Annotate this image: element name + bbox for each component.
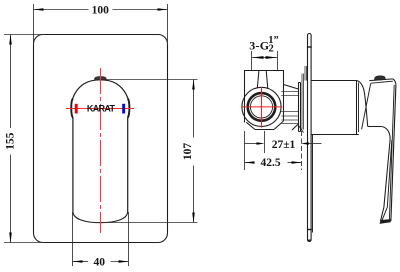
dim 42.5 extension line left xyxy=(244,131,246,170)
dim 100 extension lines xyxy=(33,4,35,45)
dim 42.5 extension line right xyxy=(301,131,303,170)
dim 3-G1/2 arrows xyxy=(252,56,264,59)
dim 100 arrows xyxy=(34,8,44,11)
step lines near plate top xyxy=(305,66,307,81)
handle body (front view) xyxy=(71,80,130,223)
handle knob chamfer line xyxy=(371,81,393,83)
dim 42.5 arrows xyxy=(245,161,255,164)
handle left side bump xyxy=(71,99,73,118)
handle neck curve xyxy=(357,81,368,127)
body-to-flange top slant xyxy=(284,85,299,90)
trim line below sleeve xyxy=(312,135,314,233)
escutcheon plate edge-on xyxy=(308,34,312,242)
plate tick top xyxy=(307,46,312,48)
top port neck left line xyxy=(257,71,259,89)
svg-text:”: ” xyxy=(274,35,279,46)
plate bottom dark cap xyxy=(308,240,311,242)
dim 40 line xyxy=(73,261,89,263)
dim 40 arrows xyxy=(73,260,83,263)
svg-text:42.5: 42.5 xyxy=(261,157,281,169)
lever blade inner edge B xyxy=(381,140,391,222)
lever blade inner edge A xyxy=(380,140,390,222)
hot indicator (red tick) xyxy=(75,104,78,114)
dim 3-G1/2 line xyxy=(252,57,278,59)
dim 107 extension lines xyxy=(106,79,197,81)
dim 107 arrows xyxy=(192,80,195,90)
lever tip dark wedge xyxy=(380,219,392,224)
port inner circle xyxy=(250,96,272,118)
port outer circle xyxy=(242,87,281,126)
mounting flange xyxy=(299,83,301,132)
dim 3-G1/2 extension lines xyxy=(251,51,253,71)
svg-text:155: 155 xyxy=(5,132,17,150)
sleeve inner edge line xyxy=(358,83,360,133)
body-to-flange bottom slant xyxy=(292,124,298,130)
handle right side bump xyxy=(128,99,130,118)
dim 155 line xyxy=(10,35,12,129)
port thread ring (thick) xyxy=(248,93,276,121)
dim 3-G1/2 text xyxy=(249,35,278,55)
trim sleeve cylinder xyxy=(311,81,359,135)
dim 40 extension lines xyxy=(72,212,74,266)
flange second band xyxy=(302,74,304,130)
lever blade outer inner line xyxy=(389,85,394,220)
handle button cap (side) xyxy=(375,76,386,80)
red crosshair of port xyxy=(242,87,282,128)
handle top cap (front) xyxy=(95,77,106,80)
plate tick bottom xyxy=(307,229,312,231)
dim 155 arrows xyxy=(9,35,12,45)
body bottom right chamfer xyxy=(274,121,284,130)
lever elbow arc xyxy=(382,127,390,140)
svg-text:27±1: 27±1 xyxy=(272,139,296,151)
dim 27 right tail xyxy=(308,143,322,145)
svg-text:3-G: 3-G xyxy=(249,39,269,53)
red centerline horizontal (front) xyxy=(66,108,134,110)
dim 155 extension lines xyxy=(4,34,45,36)
flange bottom taper to plate xyxy=(299,126,304,133)
handle knob bottom edge xyxy=(368,126,382,128)
dim 42.5 line xyxy=(245,162,254,164)
cartridge stem horizontal lines xyxy=(281,92,298,124)
body bottom chord xyxy=(255,129,274,131)
svg-text:100: 100 xyxy=(92,4,110,16)
dim 107 line xyxy=(193,80,195,138)
svg-text:107: 107 xyxy=(182,143,194,161)
red centerline vertical (front) xyxy=(100,68,102,233)
dim 100 line xyxy=(34,9,89,11)
top port neck right line xyxy=(266,71,268,89)
dim 27 extension line (port center) xyxy=(264,131,266,153)
svg-text:KARAT: KARAT xyxy=(87,103,116,113)
handle knob front slant xyxy=(362,83,371,129)
wall plate (front view rounded rectangle) xyxy=(34,35,168,243)
handle knob top edge xyxy=(369,79,393,81)
svg-text:40: 40 xyxy=(93,256,105,268)
lever blade outer edge xyxy=(391,79,396,221)
cold indicator (blue tick) xyxy=(122,104,125,114)
valve body outline xyxy=(245,71,284,123)
dim 27 arrows xyxy=(257,142,265,145)
dim 27 left tail xyxy=(245,143,257,145)
body bottom left chamfer xyxy=(246,122,255,129)
